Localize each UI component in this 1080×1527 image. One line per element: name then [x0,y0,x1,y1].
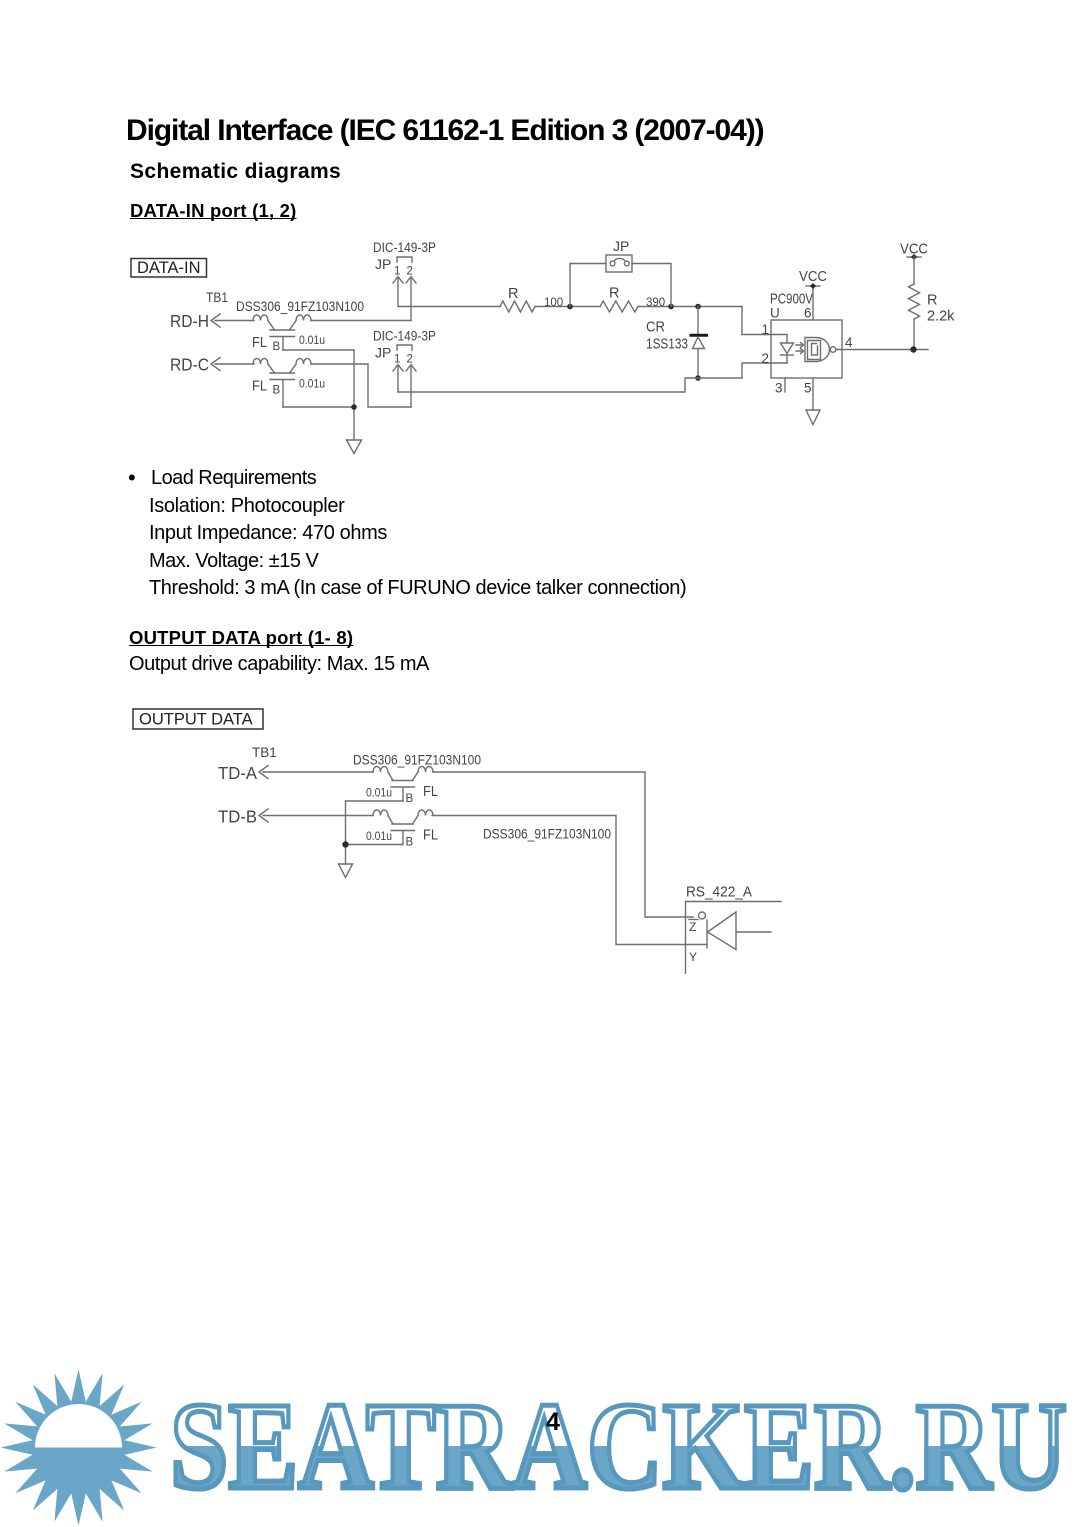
connector DIC-149-3P upper [373,240,436,321]
body line impedance [149,522,387,545]
svg-text:5: 5 [804,381,812,396]
svg-text:TB1: TB1 [252,745,277,760]
watermark sun [1,1370,157,1526]
light arrows [796,343,804,354]
wire lower DIC pin1 return [398,363,771,392]
wire R390 to CR junction [638,306,742,308]
node junction JP left [567,304,573,310]
wire opto pin6 VCC [806,283,820,320]
wire TD-B to FL [263,815,373,817]
resistor R (100) [500,286,563,312]
svg-text:JP: JP [375,345,391,361]
svg-text:B: B [273,385,281,397]
svg-text:B: B [406,793,414,805]
heading DATA-IN port [130,200,297,221]
body line voltage [149,550,318,573]
filter FL (RD-C) [252,358,325,407]
svg-text:DIC-149-3P: DIC-149-3P [373,240,436,255]
wire opto pin3 stub [784,378,786,392]
body line threshold [149,577,686,600]
svg-text:DSS306_91FZ103N100: DSS306_91FZ103N100 [483,827,611,842]
svg-text:OUTPUT DATA: OUTPUT DATA [139,711,253,729]
node VCC (opto) [799,268,827,285]
node VCC (pull-up) [900,241,928,261]
wire TD-B to RS422 [432,816,707,945]
svg-text:DSS306_91FZ103N100: DSS306_91FZ103N100 [236,299,364,314]
svg-text:CR: CR [646,320,665,336]
ground (OUTPUT DATA) [339,864,353,878]
jumper JP top [570,238,671,307]
svg-text:1SS133: 1SS133 [646,337,688,353]
svg-text:1: 1 [394,266,400,278]
wire ground bus (output) [345,801,347,864]
svg-text:DIC-149-3P: DIC-149-3P [373,329,436,344]
svg-text:FL: FL [423,784,438,800]
wire ground bus vertical [353,350,355,440]
ground (opto) [806,410,820,425]
bullet text Load Requirements [151,467,316,490]
node junction CR top [695,304,701,310]
svg-text:2.2k: 2.2k [927,309,955,325]
svg-text:1: 1 [394,354,400,366]
node junction CR bottom [695,375,701,381]
svg-text:DATA-IN: DATA-IN [137,259,201,277]
wire opto pin4 out [836,349,928,351]
svg-text:Z: Z [689,920,696,934]
svg-text:0.01u: 0.01u [299,335,325,347]
node junction pin4/R2.2k [910,346,916,352]
body line isolation [149,495,344,518]
page number [546,1408,560,1437]
resistor R (390) [600,286,665,313]
node TD-A [218,763,268,783]
svg-text:R: R [508,286,518,302]
svg-text:2: 2 [407,266,413,278]
svg-text:R: R [609,286,619,302]
svg-text:FL: FL [423,828,438,844]
wire RD-H filter to upper DIC pin2 [311,320,411,322]
wire RD-H to FL [215,320,254,322]
svg-text:6: 6 [804,306,812,321]
wire opto pin5 to ground [812,378,814,410]
svg-text:0.01u: 0.01u [366,831,392,843]
svg-text:0.01u: 0.01u [299,379,325,391]
svg-text:JP: JP [613,238,629,254]
svg-text:2: 2 [407,354,413,366]
svg-text:RD-H: RD-H [170,311,209,331]
svg-text:TD-B: TD-B [218,807,257,827]
svg-text:RD-C: RD-C [170,355,209,375]
filter FL (TD-A) DSS306_91FZ103N100 [353,753,481,806]
watermark text SEATRACKER.RU [170,1378,1067,1516]
bullet [128,465,136,490]
connector DIC-149-3P lower [373,329,436,408]
svg-text:RS_422_A: RS_422_A [686,885,752,901]
driver RS_422_A [686,885,782,974]
title [126,114,763,149]
wire to opto pin1 [742,307,771,335]
node TB1 (output) [252,745,277,760]
wire TD-A cap to ground bus [346,800,404,802]
svg-text:Y: Y [689,950,697,964]
DATA-IN box label [131,259,207,278]
node junction dot (output ground) [342,841,348,847]
node TD-B [218,807,268,827]
wire TD-A to FL [263,771,373,773]
schmitt gate [805,338,836,362]
subtitle [130,160,341,184]
svg-text:TD-A: TD-A [218,763,257,783]
node RD-H [170,311,220,331]
filter FL (TD-B) [366,810,438,849]
svg-text:FL: FL [252,335,267,351]
wire RD-C to FL [215,363,254,365]
filter FL (RD-H) DSS306_91FZ103N100 [236,299,364,353]
wire TD-B cap to ground junction [346,844,404,846]
svg-text:0.01u: 0.01u [366,788,392,800]
svg-text:2: 2 [762,351,770,366]
wire RD-C filter cap to ground bus [283,406,354,408]
svg-text:VCC: VCC [799,268,827,285]
node RD-C [170,355,220,375]
svg-text:B: B [273,341,281,353]
wire upper DIC pin1 to R [398,306,500,308]
resistor R 2.2k [909,257,956,350]
node TB1 [206,290,228,305]
svg-text:JP: JP [375,256,391,272]
OUTPUT DATA box label [133,709,263,729]
svg-text:3: 3 [775,381,783,396]
svg-text:1: 1 [762,322,770,337]
node junction dot ground bus [351,404,357,410]
svg-text:U: U [770,306,780,321]
ground (DATA-IN) [347,440,362,454]
LED inside optocoupler [771,335,794,364]
svg-text:R: R [927,293,937,309]
node junction JP right [668,304,674,310]
svg-text:B: B [406,837,414,849]
svg-text:4: 4 [845,335,853,350]
wire RD-C to lower DIC pin2 [311,364,411,407]
label DSS306 (TD-B) [483,827,611,842]
op-amp U PC900V optocoupler [762,292,854,396]
diode CR 1SS133 [646,307,707,379]
wire R100 to R390 [535,306,600,308]
wire RD-H filter cap to ground bus [283,349,354,351]
wire TD-A to RS422 [433,772,693,917]
heading OUTPUT DATA port [129,627,353,648]
svg-text:FL: FL [252,379,267,395]
body line output drive [129,653,429,676]
svg-text:TB1: TB1 [206,290,228,305]
svg-text:DSS306_91FZ103N100: DSS306_91FZ103N100 [353,753,481,768]
